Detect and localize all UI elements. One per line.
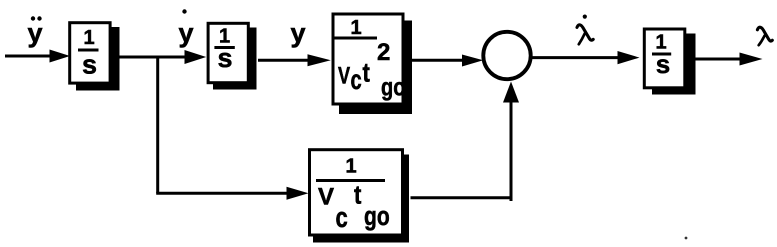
integrator block 1/s (second) (208, 23, 256, 89)
svg-text:1: 1 (83, 27, 94, 49)
wire gain block to summing junction (412, 55, 484, 67)
svg-text:2: 2 (377, 39, 390, 66)
label ÿ (input signal, y double-dot) (27, 16, 42, 48)
wire summing junction to integrator 3 (532, 51, 640, 64)
gain block 1/(Vc tgo) (lower) (310, 150, 410, 243)
svg-text:1: 1 (350, 17, 361, 39)
wire integrator 3 to output (693, 53, 763, 66)
svg-text:go: go (381, 73, 405, 101)
svg-text:y: y (178, 18, 193, 48)
svg-text:c: c (336, 202, 348, 234)
svg-text:V: V (338, 61, 351, 89)
summing junction circle (483, 32, 530, 79)
node branch junction after integrator1 (156, 56, 159, 194)
svg-text:y: y (27, 18, 42, 48)
integrator block 1/s (first) (70, 23, 120, 91)
svg-text:s: s (82, 50, 97, 80)
svg-text:s: s (656, 49, 670, 79)
svg-text:s: s (217, 43, 232, 73)
svg-text:c: c (351, 65, 362, 96)
label λ̇ (lambda dot) (577, 15, 593, 45)
gain block 1/(Vc tgo^2) (332, 14, 412, 114)
wire integrator2 to gain block 1/(Vc tgo^2) (258, 54, 331, 66)
label λ (lambda, output) (757, 27, 772, 45)
wire lower gain block to summing junction (feedback up) (411, 82, 520, 202)
speck artifact (685, 237, 688, 240)
svg-text:y: y (290, 18, 305, 48)
svg-text:go: go (364, 202, 390, 232)
svg-text:1: 1 (345, 156, 356, 178)
svg-text:t: t (363, 58, 370, 88)
label y (290, 18, 305, 48)
wire input to integrator 1 (5, 50, 70, 63)
integrator block 1/s (third) (644, 29, 695, 95)
wire integrator1 to integrator2 (120, 50, 207, 64)
svg-text:V: V (318, 184, 334, 211)
wire branch to lower gain block 1/(Vc tgo) (156, 187, 308, 200)
label ẏ (y dot) (178, 9, 193, 48)
svg-text:t: t (354, 181, 361, 210)
